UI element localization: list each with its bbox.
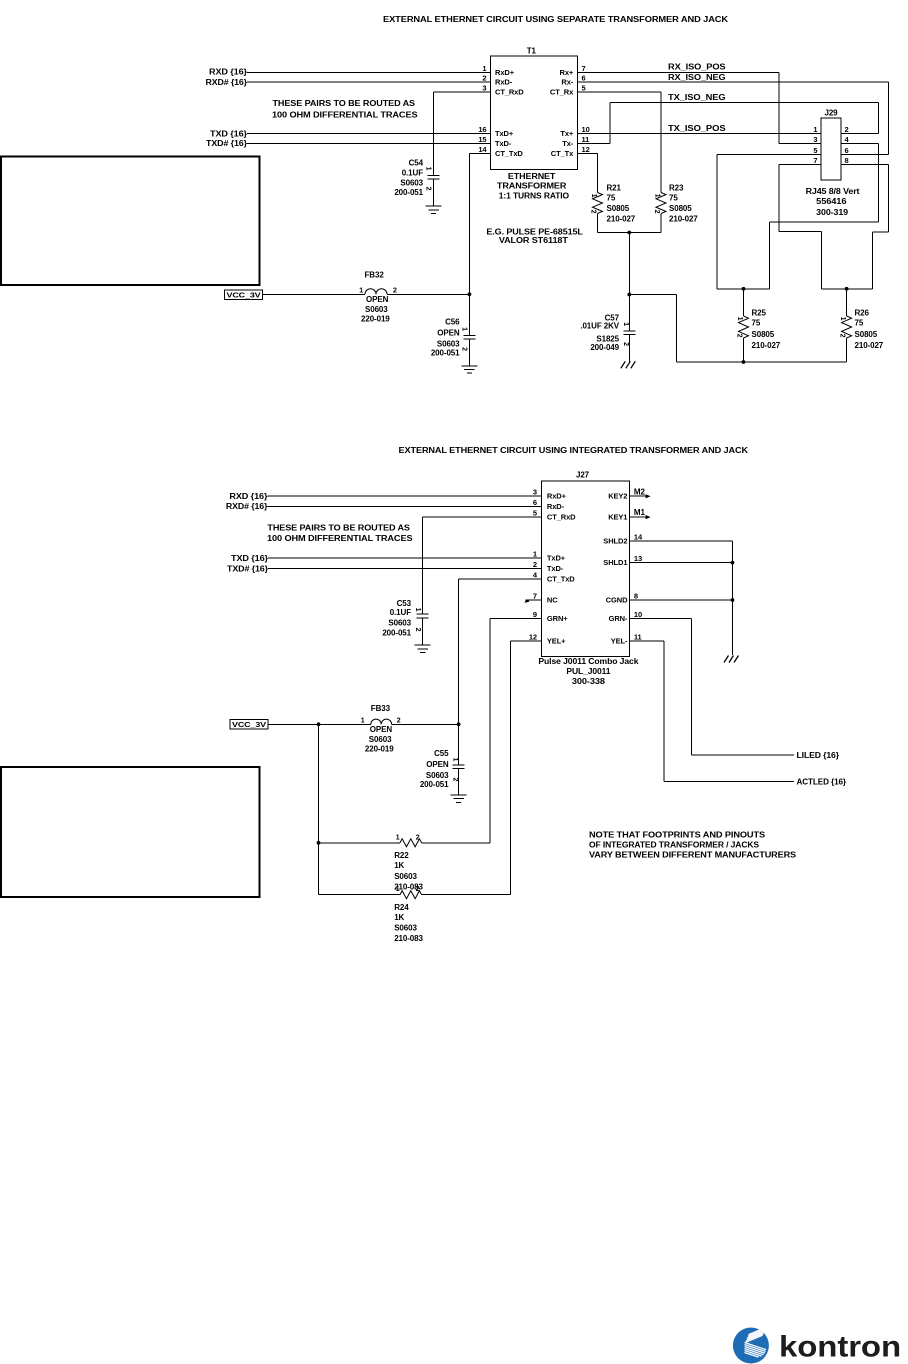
T1 pin names left	[495, 68, 524, 158]
svg-text:RxD-: RxD-	[547, 502, 565, 511]
svg-text:12: 12	[582, 145, 590, 154]
capacitor C53	[417, 614, 429, 618]
svg-text:210-027: 210-027	[752, 341, 781, 350]
FB32 labels	[361, 270, 390, 323]
svg-text:RJ45 8/8 Vert: RJ45 8/8 Vert	[806, 187, 860, 196]
svg-text:S0603: S0603	[437, 339, 460, 348]
svg-text:210-027: 210-027	[669, 214, 698, 223]
wire KEY2 stub M2	[629, 494, 650, 498]
svg-text:.01UF 2KV: .01UF 2KV	[580, 322, 619, 331]
svg-text:R22: R22	[394, 851, 409, 860]
T1 pin numbers right	[582, 64, 590, 154]
C53 value labels	[382, 599, 411, 637]
svg-text:14: 14	[634, 533, 643, 542]
power symbol VCC_3V section 1	[225, 290, 263, 300]
svg-text:75: 75	[607, 194, 616, 203]
J27 description	[538, 657, 639, 686]
capacitor C57	[623, 331, 635, 335]
wire C57 junction to right	[629, 294, 676, 296]
svg-text:SHLD2: SHLD2	[603, 537, 627, 546]
wire J27 pin 12 stub	[511, 640, 542, 642]
wire pin 4 down	[877, 144, 879, 222]
wire CGND pin 8	[629, 599, 732, 601]
svg-text:FB33: FB33	[371, 704, 391, 713]
svg-text:RX_ISO_NEG: RX_ISO_NEG	[668, 73, 726, 82]
svg-text:CT_RxD: CT_RxD	[495, 88, 524, 97]
earth ground C55	[451, 795, 467, 802]
svg-text:S0805: S0805	[752, 330, 775, 339]
wire T1 pin 14 stub	[469, 153, 490, 155]
wire C55 to ground	[458, 769, 460, 796]
svg-text:210-083: 210-083	[394, 934, 423, 943]
svg-text:RX_ISO_POS: RX_ISO_POS	[668, 62, 726, 71]
wire TXD# to T1 pin 15	[247, 143, 491, 145]
svg-text:TxD+: TxD+	[547, 554, 566, 563]
wire VCC_3V to FB32	[263, 293, 366, 295]
svg-text:RxD+: RxD+	[495, 68, 515, 77]
svg-text:200-051: 200-051	[420, 780, 449, 789]
svg-text:1: 1	[622, 322, 629, 326]
connector J27 box	[541, 481, 629, 656]
wire FB32 to junction	[387, 293, 469, 295]
svg-text:6: 6	[533, 498, 537, 507]
wire YEL+ vertical	[510, 641, 512, 895]
svg-text:11: 11	[634, 632, 642, 641]
svg-text:VCC_3V: VCC_3V	[227, 292, 262, 299]
T1 pin numbers left	[478, 64, 487, 154]
svg-text:100 OHM DIFFERENTIAL TRACES: 100 OHM DIFFERENTIAL TRACES	[267, 534, 413, 543]
wire pin 7 down 2	[821, 232, 823, 289]
svg-text:S0603: S0603	[365, 305, 388, 314]
svg-text:CT_Rx: CT_Rx	[550, 88, 574, 97]
svg-text:CT_TxD: CT_TxD	[547, 574, 575, 583]
svg-text:VCC_3V: VCC_3V	[232, 722, 267, 729]
wire RXD to J27 pin 3	[267, 495, 541, 497]
svg-text:C54: C54	[409, 158, 424, 167]
svg-text:EXTERNAL ETHERNET CIRCUIT USIN: EXTERNAL ETHERNET CIRCUIT USING INTEGRAT…	[399, 445, 749, 455]
resistor R21	[593, 193, 603, 214]
svg-text:2: 2	[622, 342, 629, 346]
R24 pin numbers	[396, 886, 420, 893]
svg-text:11: 11	[582, 135, 590, 144]
svg-text:NC: NC	[547, 596, 558, 605]
svg-text:9: 9	[533, 610, 537, 619]
svg-text:Tx+: Tx+	[560, 129, 574, 138]
svg-text:7: 7	[582, 64, 586, 73]
earth ground C54	[426, 206, 442, 213]
junction FB32 / C56 / CT_TxD	[468, 292, 472, 296]
svg-text:RXD# {16}: RXD# {16}	[226, 502, 268, 511]
wire up to pin 8	[887, 165, 889, 232]
svg-text:3: 3	[533, 488, 537, 497]
junction SHLD1	[731, 561, 735, 565]
wire R23 to rail	[660, 214, 662, 233]
svg-text:M1: M1	[634, 508, 646, 517]
wire VCC branch down	[318, 724, 320, 894]
svg-text:1: 1	[736, 317, 743, 321]
svg-text:2: 2	[414, 628, 421, 632]
svg-text:ETHERNET: ETHERNET	[508, 172, 556, 181]
svg-text:8: 8	[845, 156, 849, 165]
wire CT_TxD down to junction	[458, 579, 460, 725]
svg-text:R26: R26	[855, 309, 870, 318]
wire TX_ISO_POS T1 pin 10 to J29 pin 1	[578, 133, 821, 135]
svg-text:75: 75	[669, 194, 678, 203]
svg-text:5: 5	[813, 146, 817, 155]
svg-text:THESE PAIRS TO BE ROUTED AS: THESE PAIRS TO BE ROUTED AS	[267, 524, 410, 533]
svg-text:ACTLED {16}: ACTLED {16}	[797, 777, 847, 786]
R26 labels	[855, 309, 884, 350]
junction rail center	[627, 231, 631, 235]
svg-text:2: 2	[839, 334, 846, 338]
T1 example part note	[486, 227, 583, 245]
J29 description	[806, 187, 860, 217]
svg-text:7: 7	[813, 156, 817, 165]
svg-text:TRANSFORMER: TRANSFORMER	[497, 182, 567, 191]
junction R26 top	[845, 287, 849, 291]
J27 pin names right	[603, 492, 628, 646]
svg-text:LILED {16}: LILED {16}	[797, 751, 840, 760]
wire J27 pin 9 stub	[490, 618, 541, 620]
svg-text:kontron: kontron	[779, 1331, 901, 1364]
svg-text:220-019: 220-019	[365, 745, 394, 754]
svg-text:0.1UF: 0.1UF	[402, 168, 423, 177]
svg-text:J27: J27	[576, 471, 590, 480]
svg-text:EXTERNAL ETHERNET CIRCUIT USIN: EXTERNAL ETHERNET CIRCUIT USING SEPARATE…	[383, 14, 729, 24]
wire R24 to YEL+ descent	[422, 894, 511, 896]
svg-text:R25: R25	[752, 309, 767, 318]
svg-text:2: 2	[425, 187, 432, 191]
wire YEL- stub	[629, 640, 664, 642]
junction R25 top	[742, 287, 746, 291]
svg-text:S0603: S0603	[394, 872, 417, 881]
svg-text:RxD-: RxD-	[495, 78, 513, 87]
wire to R24	[319, 894, 401, 896]
svg-text:3: 3	[813, 135, 817, 144]
wire pin5 to R25 top	[717, 288, 769, 290]
T1 pin names right	[550, 68, 574, 158]
junction C57 top	[627, 293, 631, 297]
svg-text:C53: C53	[397, 599, 412, 608]
svg-text:Pulse J0011 Combo Jack: Pulse J0011 Combo Jack	[538, 657, 639, 666]
wire C53 to ground	[422, 618, 424, 645]
wire down to bottom rail	[676, 295, 678, 363]
ferrite bead FB32	[365, 289, 387, 295]
wire TX_ISO_NEG down to J29 pin 2	[877, 103, 879, 134]
svg-text:S0805: S0805	[855, 330, 878, 339]
svg-text:OPEN: OPEN	[426, 760, 449, 769]
svg-text:1: 1	[482, 64, 486, 73]
svg-text:KEY2: KEY2	[608, 492, 627, 501]
J27 pin numbers right	[634, 533, 643, 642]
svg-text:1: 1	[396, 886, 400, 893]
ferrite bead FB33	[371, 719, 392, 724]
capacitor C54	[428, 175, 440, 179]
resistor R23	[656, 193, 666, 214]
svg-text:7: 7	[533, 592, 537, 601]
wire pin 7 right	[779, 231, 822, 233]
wire CT_RxD down to C54	[433, 92, 435, 175]
svg-text:THESE PAIRS TO BE ROUTED AS: THESE PAIRS TO BE ROUTED AS	[273, 99, 416, 108]
svg-text:1: 1	[359, 287, 363, 294]
wire TXD to T1 pin 16	[247, 133, 491, 135]
wire GRN- down	[691, 619, 693, 755]
chassis ground J27 shield	[724, 656, 739, 663]
svg-text:10: 10	[582, 125, 590, 134]
J27 pin numbers left	[529, 488, 538, 642]
R21 labels	[607, 183, 636, 223]
wire J27 pin 5 stub	[423, 516, 542, 518]
wire R25 top lead	[743, 289, 745, 316]
svg-text:2: 2	[393, 287, 397, 294]
svg-text:1: 1	[425, 167, 432, 171]
svg-text:Tx-: Tx-	[562, 139, 574, 148]
capacitor C56	[463, 335, 475, 339]
junction VCC branch	[317, 722, 321, 726]
wire right up	[872, 232, 874, 289]
svg-text:TXD {16}: TXD {16}	[210, 129, 247, 138]
svg-text:GRN-: GRN-	[609, 614, 628, 623]
svg-text:YEL-: YEL-	[611, 636, 628, 645]
junction FB33 / C55 / CT_TxD	[457, 722, 461, 726]
svg-text:RXD {16}: RXD {16}	[209, 68, 247, 77]
svg-text:S0603: S0603	[388, 619, 411, 628]
svg-text:TxD-: TxD-	[547, 564, 564, 573]
wire junction down to C57	[628, 295, 630, 331]
wire YEL- down	[663, 641, 665, 782]
wire CT_RxD down to C53	[422, 517, 424, 614]
R23 labels	[669, 183, 698, 223]
wire pin 7 down	[778, 165, 780, 232]
wire Tx- up	[609, 103, 611, 144]
resistor R26	[842, 316, 852, 338]
svg-text:2: 2	[452, 778, 459, 782]
svg-text:1:1 TURNS RATIO: 1:1 TURNS RATIO	[499, 191, 569, 200]
R25 labels	[752, 309, 781, 350]
wire J29 pin 5 stub	[717, 154, 821, 156]
svg-text:16: 16	[478, 125, 486, 134]
R22 pin numbers	[396, 834, 420, 841]
svg-text:2: 2	[590, 210, 597, 214]
wire termination bottom rail	[677, 361, 847, 363]
wire SHLD2 pin 14	[629, 540, 732, 542]
svg-text:TxD-: TxD-	[495, 139, 512, 148]
wire C56 to ground	[468, 339, 470, 366]
svg-text:S0805: S0805	[669, 204, 692, 213]
svg-text:OPEN: OPEN	[370, 725, 393, 734]
svg-text:OPEN: OPEN	[437, 329, 460, 338]
wire junction to FB33	[319, 723, 371, 725]
svg-text:VALOR ST6118T: VALOR ST6118T	[499, 236, 568, 245]
wire pin4-pin5 tie horizontal	[769, 221, 878, 223]
svg-text:3: 3	[482, 84, 486, 93]
Kontron logo globe	[733, 1327, 769, 1363]
svg-text:M2: M2	[634, 487, 646, 496]
wire J29 pin 6 stub	[841, 154, 888, 156]
J29 pin numbers left	[813, 125, 817, 165]
svg-text:2: 2	[845, 125, 849, 134]
C54 value labels	[394, 158, 423, 196]
wire KEY1 stub M1	[629, 515, 650, 519]
C57 labels	[580, 313, 619, 352]
svg-text:T1: T1	[527, 46, 537, 55]
wire J29 pin 3 stub	[779, 143, 821, 145]
svg-text:1K: 1K	[394, 913, 404, 922]
wire J29 pin 4 stub	[841, 143, 878, 145]
svg-text:R24: R24	[394, 903, 409, 912]
wire SHLD1 pin 13	[629, 562, 732, 564]
T1 description	[497, 172, 569, 200]
wire R21-R23 bottom rail	[598, 232, 662, 234]
C55 value labels	[420, 749, 449, 789]
svg-text:TXD {16}: TXD {16}	[231, 554, 268, 563]
svg-text:14: 14	[478, 145, 487, 154]
svg-text:TXD# {16}: TXD# {16}	[206, 139, 247, 148]
svg-text:1: 1	[396, 834, 400, 841]
svg-text:2: 2	[482, 74, 486, 83]
svg-text:PUL_J0011: PUL_J0011	[566, 667, 611, 676]
wire T1 pin 5 stub CT_Rx	[578, 91, 661, 93]
svg-text:CT_TxD: CT_TxD	[495, 149, 523, 158]
wire C57 to chassis ground	[628, 335, 630, 362]
svg-text:TXD# {16}: TXD# {16}	[227, 564, 268, 573]
svg-text:6: 6	[582, 74, 586, 83]
svg-text:1: 1	[452, 758, 459, 762]
svg-text:1: 1	[461, 327, 468, 331]
wire YEL- right	[664, 781, 794, 783]
svg-text:J29: J29	[824, 108, 838, 117]
svg-text:TxD+: TxD+	[495, 129, 514, 138]
FB32 pin numbers	[359, 287, 397, 294]
svg-text:2: 2	[397, 717, 401, 724]
svg-text:2: 2	[416, 834, 420, 841]
C56 value labels	[431, 318, 460, 358]
power symbol VCC_3V section 2	[230, 720, 268, 730]
R24 labels	[394, 903, 423, 943]
J27 pin names left	[547, 492, 576, 646]
svg-text:2: 2	[416, 886, 420, 893]
wire right top	[873, 231, 889, 233]
svg-text:Rx+: Rx+	[560, 68, 574, 77]
wire junction down to C56	[468, 294, 470, 335]
svg-text:C55: C55	[434, 749, 449, 758]
svg-text:VARY BETWEEN DIFFERENT MANUFAC: VARY BETWEEN DIFFERENT MANUFACTURERS	[589, 851, 797, 860]
wire R21 to rail	[597, 214, 599, 233]
svg-text:OF INTEGRATED TRANSFORMER / JA: OF INTEGRATED TRANSFORMER / JACKS	[589, 841, 760, 850]
wire R25 bottom lead	[743, 338, 745, 362]
svg-text:CT_RxD: CT_RxD	[547, 512, 576, 521]
svg-text:15: 15	[478, 135, 486, 144]
wire T1 pin 12 stub	[578, 153, 598, 155]
wire CT_TxD down to junction	[468, 154, 470, 295]
svg-text:200-049: 200-049	[590, 343, 619, 352]
transformer T1 box	[491, 56, 578, 169]
svg-text:NOTE THAT FOOTPRINTS AND PINOU: NOTE THAT FOOTPRINTS AND PINOUTS	[589, 831, 766, 840]
wire RXD to T1 pin 1	[247, 71, 491, 73]
wire J29 pin 7 stub	[779, 164, 821, 166]
FB33 labels	[365, 704, 394, 754]
J29 pin numbers right	[845, 125, 850, 165]
chassis ground C57	[621, 361, 636, 368]
svg-text:2: 2	[653, 210, 660, 214]
resistor R24	[400, 891, 422, 899]
wire FB33 to C55 junction	[392, 723, 459, 725]
svg-text:GRN+: GRN+	[547, 614, 568, 623]
note text	[589, 831, 797, 860]
svg-text:SHLD1: SHLD1	[603, 558, 627, 567]
wire pin 5 down	[716, 155, 718, 289]
svg-text:1: 1	[590, 194, 597, 198]
svg-text:Rx-: Rx-	[561, 78, 573, 87]
wire TXD# to J27 pin 2	[268, 568, 541, 570]
svg-text:S0603: S0603	[400, 179, 423, 188]
svg-text:S0805: S0805	[607, 204, 630, 213]
wire GRN- right	[692, 754, 795, 756]
wire J27 pin 4 stub	[459, 578, 542, 580]
svg-text:1: 1	[414, 608, 421, 612]
svg-text:75: 75	[752, 319, 761, 328]
wire R26 bottom lead	[846, 338, 848, 362]
svg-text:CGND: CGND	[606, 596, 628, 605]
resistor R25	[739, 316, 749, 338]
wire RXD# to T1 pin 2	[247, 81, 491, 83]
svg-text:YEL+: YEL+	[547, 636, 566, 645]
empty frame box 2	[1, 767, 260, 897]
svg-text:CT_Tx: CT_Tx	[551, 149, 574, 158]
svg-text:8: 8	[634, 592, 638, 601]
connector J29 box	[821, 118, 841, 180]
svg-text:0.1UF: 0.1UF	[390, 608, 411, 617]
capacitor C55	[453, 765, 465, 769]
wire RX_ISO_NEG down to J29 pin 6	[887, 82, 889, 154]
svg-text:2: 2	[533, 560, 537, 569]
wire VCC_3V to junction	[268, 723, 319, 725]
wire RX_ISO_POS down to J29 pin 3	[778, 72, 780, 143]
svg-text:R23: R23	[669, 183, 684, 192]
wire C54 to ground	[433, 179, 435, 206]
earth ground C56	[461, 366, 477, 373]
wire tie down to R25 rail	[768, 222, 770, 289]
svg-text:RxD+: RxD+	[547, 492, 567, 501]
svg-text:R21: R21	[607, 183, 622, 192]
wire J29 pin 2 stub	[841, 133, 878, 135]
wire T1 pin 11 stub	[578, 143, 610, 145]
junction CGND	[731, 598, 735, 602]
svg-text:200-051: 200-051	[394, 188, 423, 197]
svg-text:1: 1	[813, 125, 817, 134]
svg-text:OPEN: OPEN	[366, 295, 389, 304]
svg-text:1: 1	[361, 717, 365, 724]
svg-text:1: 1	[533, 550, 537, 559]
junction R25 bottom	[742, 360, 746, 364]
svg-text:1: 1	[839, 317, 846, 321]
svg-text:FB32: FB32	[365, 270, 385, 279]
wire pin7 to R26 top	[822, 288, 873, 290]
svg-text:RXD# {16}: RXD# {16}	[206, 78, 248, 87]
svg-text:75: 75	[855, 319, 864, 328]
wire GRN+ vertical	[489, 619, 491, 843]
svg-text:100 OHM DIFFERENTIAL TRACES: 100 OHM DIFFERENTIAL TRACES	[272, 111, 418, 120]
svg-text:200-051: 200-051	[431, 349, 460, 358]
wire GRN- stub	[629, 618, 691, 620]
earth ground C53	[415, 645, 431, 652]
svg-text:6: 6	[845, 146, 849, 155]
wire shield vertical	[732, 541, 734, 655]
svg-text:S0603: S0603	[369, 735, 392, 744]
svg-text:220-019: 220-019	[361, 315, 390, 324]
svg-text:2: 2	[736, 334, 743, 338]
svg-text:210-027: 210-027	[855, 341, 884, 350]
